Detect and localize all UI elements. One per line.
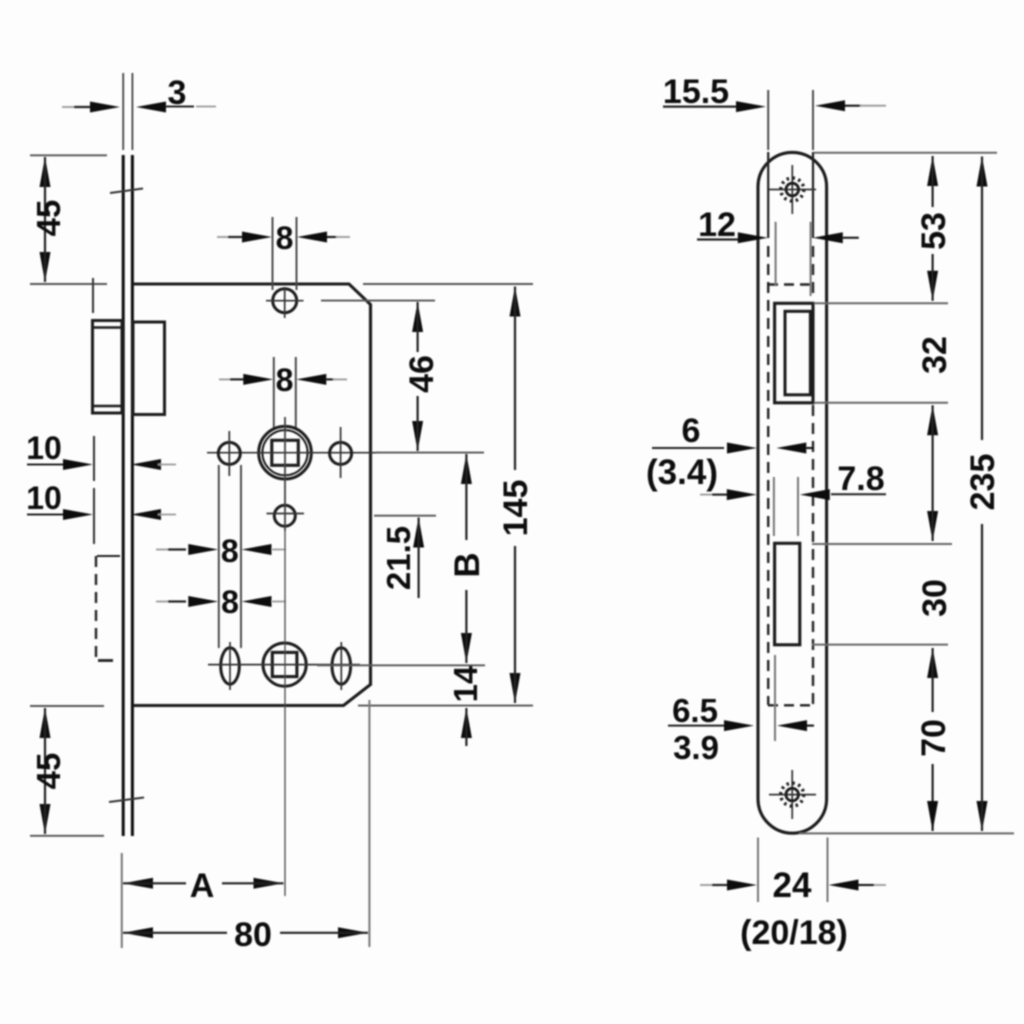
- hidden case bottom edge (dashed): [768, 704, 813, 706]
- extension line plate bottom right (70/235/24): [799, 832, 1014, 834]
- svg-text:235: 235: [964, 454, 1002, 511]
- faceplate outline (rounded ends): [758, 152, 827, 833]
- left hole beside spindle: [218, 442, 240, 464]
- dimension 24: [700, 884, 712, 886]
- svg-text:8: 8: [221, 584, 239, 620]
- spindle hub (follower) with square hole: [259, 426, 312, 479]
- hidden case top edge (dashed): [768, 283, 813, 285]
- svg-text:15.5: 15.5: [663, 73, 729, 111]
- svg-text:30: 30: [916, 579, 954, 617]
- faceplate (left view, edge-on): [122, 155, 125, 836]
- latch bolt head (protruding): [93, 321, 123, 414]
- svg-text:14: 14: [447, 665, 484, 702]
- dimension 7.8: [700, 494, 712, 496]
- extension line spindle center right: [376, 452, 484, 454]
- svg-text:3.9: 3.9: [673, 729, 719, 766]
- svg-text:145: 145: [497, 480, 535, 537]
- svg-text:B: B: [448, 552, 487, 577]
- tick at latch face above body top: [92, 278, 94, 313]
- svg-text:45: 45: [30, 753, 67, 790]
- extension lines latch cutout right (32): [814, 302, 948, 304]
- extension line lower hole right: [374, 515, 436, 517]
- svg-text:8: 8: [276, 220, 294, 256]
- faceplate extension lines above plate (for dim 3): [122, 73, 124, 150]
- dimension 45 top: extension lines: [30, 154, 107, 156]
- extension line body top right: [363, 283, 533, 285]
- faceplate break tick top: [110, 189, 143, 194]
- svg-text:6: 6: [682, 412, 701, 450]
- svg-text:3: 3: [168, 74, 187, 112]
- dimension 235: [977, 157, 988, 187]
- bottom left oval slot: [221, 648, 240, 684]
- svg-text:70: 70: [915, 719, 953, 757]
- svg-text:21.5: 21.5: [380, 526, 417, 590]
- svg-text:8: 8: [276, 362, 294, 398]
- extension lines above plate (15.5): [767, 90, 769, 150]
- dimension 21.5: [413, 518, 424, 548]
- bottom right oval slot: [332, 648, 351, 684]
- spindle hub centerlines: [207, 452, 379, 454]
- dimension 80: [123, 927, 153, 938]
- svg-text:45: 45: [30, 200, 67, 237]
- svg-text:12: 12: [698, 206, 736, 244]
- right hole beside spindle: [330, 442, 352, 464]
- top screw hole: [791, 165, 793, 214]
- dimension 145: [510, 287, 521, 317]
- deadbolt cutout in faceplate: [775, 543, 800, 645]
- dimension 8 oval row upper: [218, 465, 220, 648]
- extension line plate top right (53/235): [814, 152, 997, 154]
- extension line top hole right: [321, 300, 435, 302]
- top fixing hole: [273, 289, 297, 313]
- dimension 8 oval row lower: [156, 601, 168, 603]
- dimension 53: [927, 156, 938, 186]
- dimension 45 bottom: [40, 708, 51, 738]
- extension line bottom row right: [317, 664, 485, 666]
- lock case body outline: [133, 284, 371, 706]
- svg-text:80: 80: [234, 916, 272, 954]
- svg-text:24: 24: [773, 866, 812, 905]
- hidden case edge right (solid upper run then dashed): [812, 152, 814, 238]
- latch bolt face inside cutout: [785, 311, 810, 395]
- svg-text:10: 10: [26, 430, 62, 466]
- svg-text:6.5: 6.5: [672, 692, 718, 729]
- dimension 8 top hole: [272, 217, 274, 290]
- latch bolt body inside case: [133, 322, 165, 415]
- svg-text:53: 53: [915, 212, 953, 250]
- extension lines for 24: [757, 838, 759, 903]
- svg-text:(20/18): (20/18): [740, 914, 848, 952]
- vertical centerline through spindles down to dim A: [284, 417, 286, 896]
- dimension 70: [927, 648, 938, 678]
- svg-text:46: 46: [403, 355, 441, 393]
- extension line body bottom right: [358, 705, 533, 707]
- bottom spindle hub with square hole: [263, 643, 306, 686]
- extension line left for A and 80: [121, 853, 123, 948]
- dimension 3 (faceplate thickness): [62, 106, 75, 108]
- svg-text:10: 10: [26, 480, 62, 516]
- latch cutout in faceplate: [775, 303, 813, 403]
- svg-text:(3.4): (3.4): [646, 453, 718, 492]
- hidden dashed outline below latch (cylinder area): [97, 555, 120, 557]
- extension lines deadbolt cutout right (30): [812, 543, 952, 545]
- dimension 45 top: [40, 157, 51, 187]
- hidden case edge left (solid upper run then dashed): [767, 152, 769, 238]
- svg-text:7.8: 7.8: [837, 460, 884, 498]
- extension line right for 80: [368, 700, 370, 947]
- faceplate break tick bottom: [109, 798, 144, 803]
- dimension 46: [412, 302, 423, 332]
- bottom screw hole: [791, 770, 793, 819]
- svg-text:A: A: [190, 867, 215, 905]
- hole below spindle: [274, 505, 295, 526]
- dimension A: [123, 878, 153, 889]
- dimension B: [461, 454, 472, 484]
- dimension 8 spindle: [273, 357, 275, 428]
- svg-text:32: 32: [916, 336, 954, 374]
- svg-text:8: 8: [221, 533, 239, 569]
- dimension 14: [461, 708, 472, 738]
- extension lines bottom 45: [30, 705, 104, 707]
